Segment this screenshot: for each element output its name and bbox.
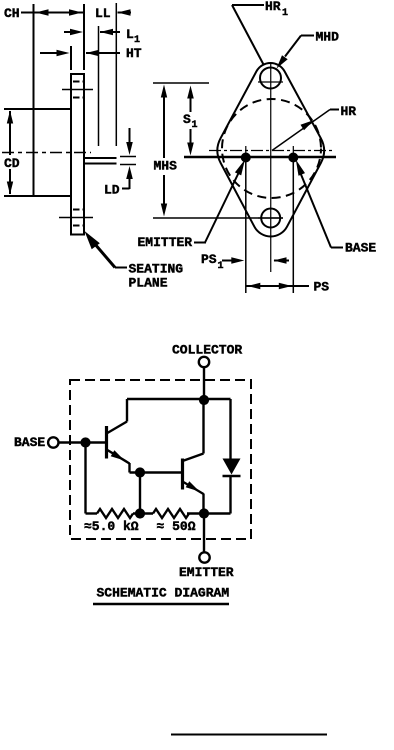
svg-text:HR: HR (341, 104, 357, 119)
svg-text:1: 1 (192, 120, 198, 131)
HR1 leader horizontal (232, 4, 264, 6)
arrowhead MHS up (161, 85, 167, 98)
HR leader horizontal (330, 109, 339, 111)
wire Q1 emitter to Q2 base (130, 471, 182, 473)
svg-text:S: S (183, 112, 191, 127)
flange top edge (70, 73, 85, 75)
Q1 emitter arrowhead (111, 450, 125, 460)
wire Q2 emitter down (202, 494, 204, 514)
extension line L1 right (x=98.5) (98, 26, 100, 146)
top rail wire (127, 398, 231, 400)
wire R2 to emitter node (187, 512, 231, 514)
base pin tick (292, 146, 294, 170)
can circle (hidden, dashed) (222, 99, 321, 198)
footer rule (171, 734, 327, 736)
LD leader horizontal (122, 188, 130, 190)
MHS dimension line lower (163, 175, 165, 205)
MHD leader horizontal (301, 35, 314, 37)
resistor R1 (approx 5.0 kOhm) (97, 509, 133, 518)
hidden hole edge dash (bottom hole lower) (73, 225, 83, 227)
extension line cap face (CH left) (33, 4, 35, 109)
dimension line CD lower (9, 169, 11, 194)
svg-text:HR: HR (265, 0, 281, 14)
extension line seating plane (x=84) (83, 4, 85, 70)
dimension tail HT left (40, 52, 57, 54)
dimension tail HT right (86, 52, 120, 54)
dimension tail L1 right (100, 31, 120, 33)
MHS extension line bottom (153, 217, 283, 219)
cap top edge (4, 108, 71, 110)
emitter pin dot (241, 153, 250, 162)
HR arrowhead (301, 120, 315, 130)
outline TO-3 flange (217, 63, 324, 236)
package centreline (dash-dot) (2, 152, 91, 154)
svg-text:SCHEMATIC DIAGRAM: SCHEMATIC DIAGRAM (97, 586, 230, 601)
HR1 leader diagonal (232, 5, 264, 65)
pin centre line (184, 156, 336, 158)
arrowhead HT left (outside) (57, 50, 70, 56)
hidden hole edge dash (top hole lower) (73, 97, 83, 99)
wire R1 to junction (133, 512, 153, 514)
arrowhead CH right (69, 9, 82, 16)
BASE leader diagonal (300, 172, 331, 248)
HR leader from centre (272, 110, 330, 151)
arrowhead L1 left (outside) (70, 29, 83, 35)
hidden hole edge dash (bottom hole upper) (73, 209, 83, 211)
LD extension line lower (120, 164, 136, 166)
seating plane arrow (85, 231, 100, 249)
EMITTER leader diagonal (205, 170, 240, 243)
arrowhead LL right (outside) (118, 9, 131, 16)
svg-text:BASE: BASE (14, 435, 45, 450)
MHD leader diagonal (285, 36, 301, 57)
wire Q2 collector up (202, 400, 204, 454)
lead lower line (83, 163, 117, 165)
svg-text:BASE: BASE (345, 241, 376, 256)
dimension tail L1 left (64, 31, 72, 33)
wire Q1 emitter down (128, 463, 130, 473)
svg-text:CD: CD (4, 156, 20, 171)
PS1 dash after label (222, 260, 229, 262)
arrowhead MHS down (161, 204, 167, 217)
pin extension line left (245, 160, 247, 293)
svg-text:≈ 50Ω: ≈ 50Ω (157, 519, 196, 534)
svg-text:COLLECTOR: COLLECTOR (172, 343, 242, 358)
emitter terminal (199, 552, 209, 562)
seating plane leader diagonal (94, 243, 115, 268)
cap left face (33, 109, 35, 196)
MHS extension line top (153, 82, 209, 84)
svg-text:LD: LD (104, 183, 120, 198)
dimension line CD upper (9, 111, 11, 155)
flange bottom edge (70, 234, 85, 236)
arrowhead LD down (126, 142, 133, 155)
lead upper line (83, 157, 117, 159)
arrowhead PS left (247, 283, 260, 289)
Q2 emitter diagonal (183, 482, 204, 495)
base pin dot (289, 153, 298, 162)
S1 dimension line lower (190, 129, 192, 144)
node N1 junction dot (135, 468, 144, 477)
transistor Q2 base bar (181, 459, 184, 490)
Q2 emitter arrowhead (186, 481, 200, 491)
PS dimension line (246, 285, 309, 287)
wire base node down (84, 443, 86, 514)
mounting hole centre tick (top) (62, 89, 93, 91)
svg-text:L: L (126, 27, 134, 42)
Q1 emitter diagonal (107, 450, 130, 464)
cap bottom edge (4, 195, 71, 197)
svg-text:PLANE: PLANE (129, 276, 168, 291)
S1 dimension line upper (190, 97, 192, 112)
MHD arrowhead (277, 55, 288, 68)
extension line lead tip (LL right, x=116.3) (115, 3, 117, 146)
hole crosshair top (258, 81, 283, 83)
hole crosshair bottom (258, 217, 283, 219)
arrowhead S1 down (187, 143, 194, 156)
svg-text:PS: PS (201, 252, 217, 267)
wire base terminal to Q1 (58, 441, 107, 443)
wire diode to bottom rail (229, 476, 231, 514)
LD extension line upper (120, 156, 136, 158)
collector terminal (199, 357, 209, 367)
svg-text:1: 1 (282, 8, 288, 19)
mounting hole centre tick (bottom) (59, 217, 93, 219)
svg-text:CH: CH (4, 6, 20, 21)
Q1 collector diagonal (107, 422, 128, 434)
emitter node junction dot (199, 509, 208, 518)
LD upper arrow line (129, 128, 131, 146)
MHS dimension line upper (163, 96, 165, 158)
wire diode branch top (229, 399, 231, 459)
BASE leader horizontal (331, 247, 343, 249)
PS1 left arrow tail (229, 260, 233, 262)
svg-text:MHD: MHD (316, 30, 340, 45)
svg-text:HT: HT (126, 46, 142, 61)
hidden hole edge dash (top hole upper) (73, 81, 83, 83)
arrowhead HT right (outside) (86, 50, 99, 56)
resistor junction dot (135, 509, 144, 518)
wire rail corner to Q1 collector (126, 399, 128, 422)
mounting hole bottom (261, 209, 280, 228)
emitter pin tick (245, 146, 247, 170)
title underline (93, 603, 229, 605)
arrowhead CD down (7, 182, 13, 195)
base junction dot (81, 438, 90, 447)
arrowhead S1 up (187, 86, 194, 99)
flange right face / seating plane (83, 75, 85, 236)
arrowhead CD up (7, 111, 13, 124)
svg-text:SEATING: SEATING (129, 262, 184, 277)
arrowhead LD up (126, 166, 133, 179)
svg-text:EMITTER: EMITTER (179, 565, 234, 580)
LD lower arrow line (129, 175, 131, 189)
base terminal (48, 437, 58, 447)
collector rail junction dot (199, 395, 208, 404)
pin extension line right (292, 160, 294, 293)
mounting hole top (260, 68, 281, 89)
svg-text:LL: LL (95, 6, 111, 21)
wire collector terminal to rail (203, 367, 205, 400)
flange left face (70, 75, 72, 236)
BASE arrowhead (296, 160, 305, 176)
arrowhead CH left (36, 9, 49, 16)
diode D1 triangle (223, 459, 241, 475)
resistor R2 (approx 50 Ohm) (153, 509, 189, 518)
extension line flange left face top stub (70, 46, 72, 70)
EMITTER arrowhead (235, 160, 245, 176)
arrowhead L1 right (outside) (100, 29, 113, 35)
bottom rail wire left (86, 512, 98, 514)
svg-text:PS: PS (314, 280, 330, 295)
svg-text:1: 1 (218, 261, 224, 272)
svg-text:EMITTER: EMITTER (138, 235, 193, 250)
transistor Q1 base bar (105, 426, 108, 459)
arrowhead PS1 right (outside) (274, 257, 287, 264)
svg-text:≈5.0 kΩ: ≈5.0 kΩ (84, 519, 139, 534)
diode D1 cathode bar (223, 475, 241, 478)
arrowhead PS right (279, 283, 292, 289)
front view horizontal centreline (dash-dot) (209, 150, 332, 152)
Q2 collector diagonal (183, 454, 204, 462)
wire emitter node to terminal (203, 514, 205, 554)
wire node N1 to resistor junction (139, 473, 141, 514)
dashed component box (70, 380, 251, 539)
svg-text:1: 1 (134, 35, 140, 46)
arrowhead PS1 left (outside) (231, 257, 244, 264)
front view vertical centreline (270, 62, 272, 272)
seating plane leader horizontal (115, 267, 127, 269)
dimension line CH (21, 12, 83, 14)
PS1 right arrow tail (274, 260, 289, 262)
svg-text:MHS: MHS (154, 159, 178, 174)
EMITTER leader dash (194, 242, 206, 244)
dimension tail LL right (118, 12, 132, 14)
